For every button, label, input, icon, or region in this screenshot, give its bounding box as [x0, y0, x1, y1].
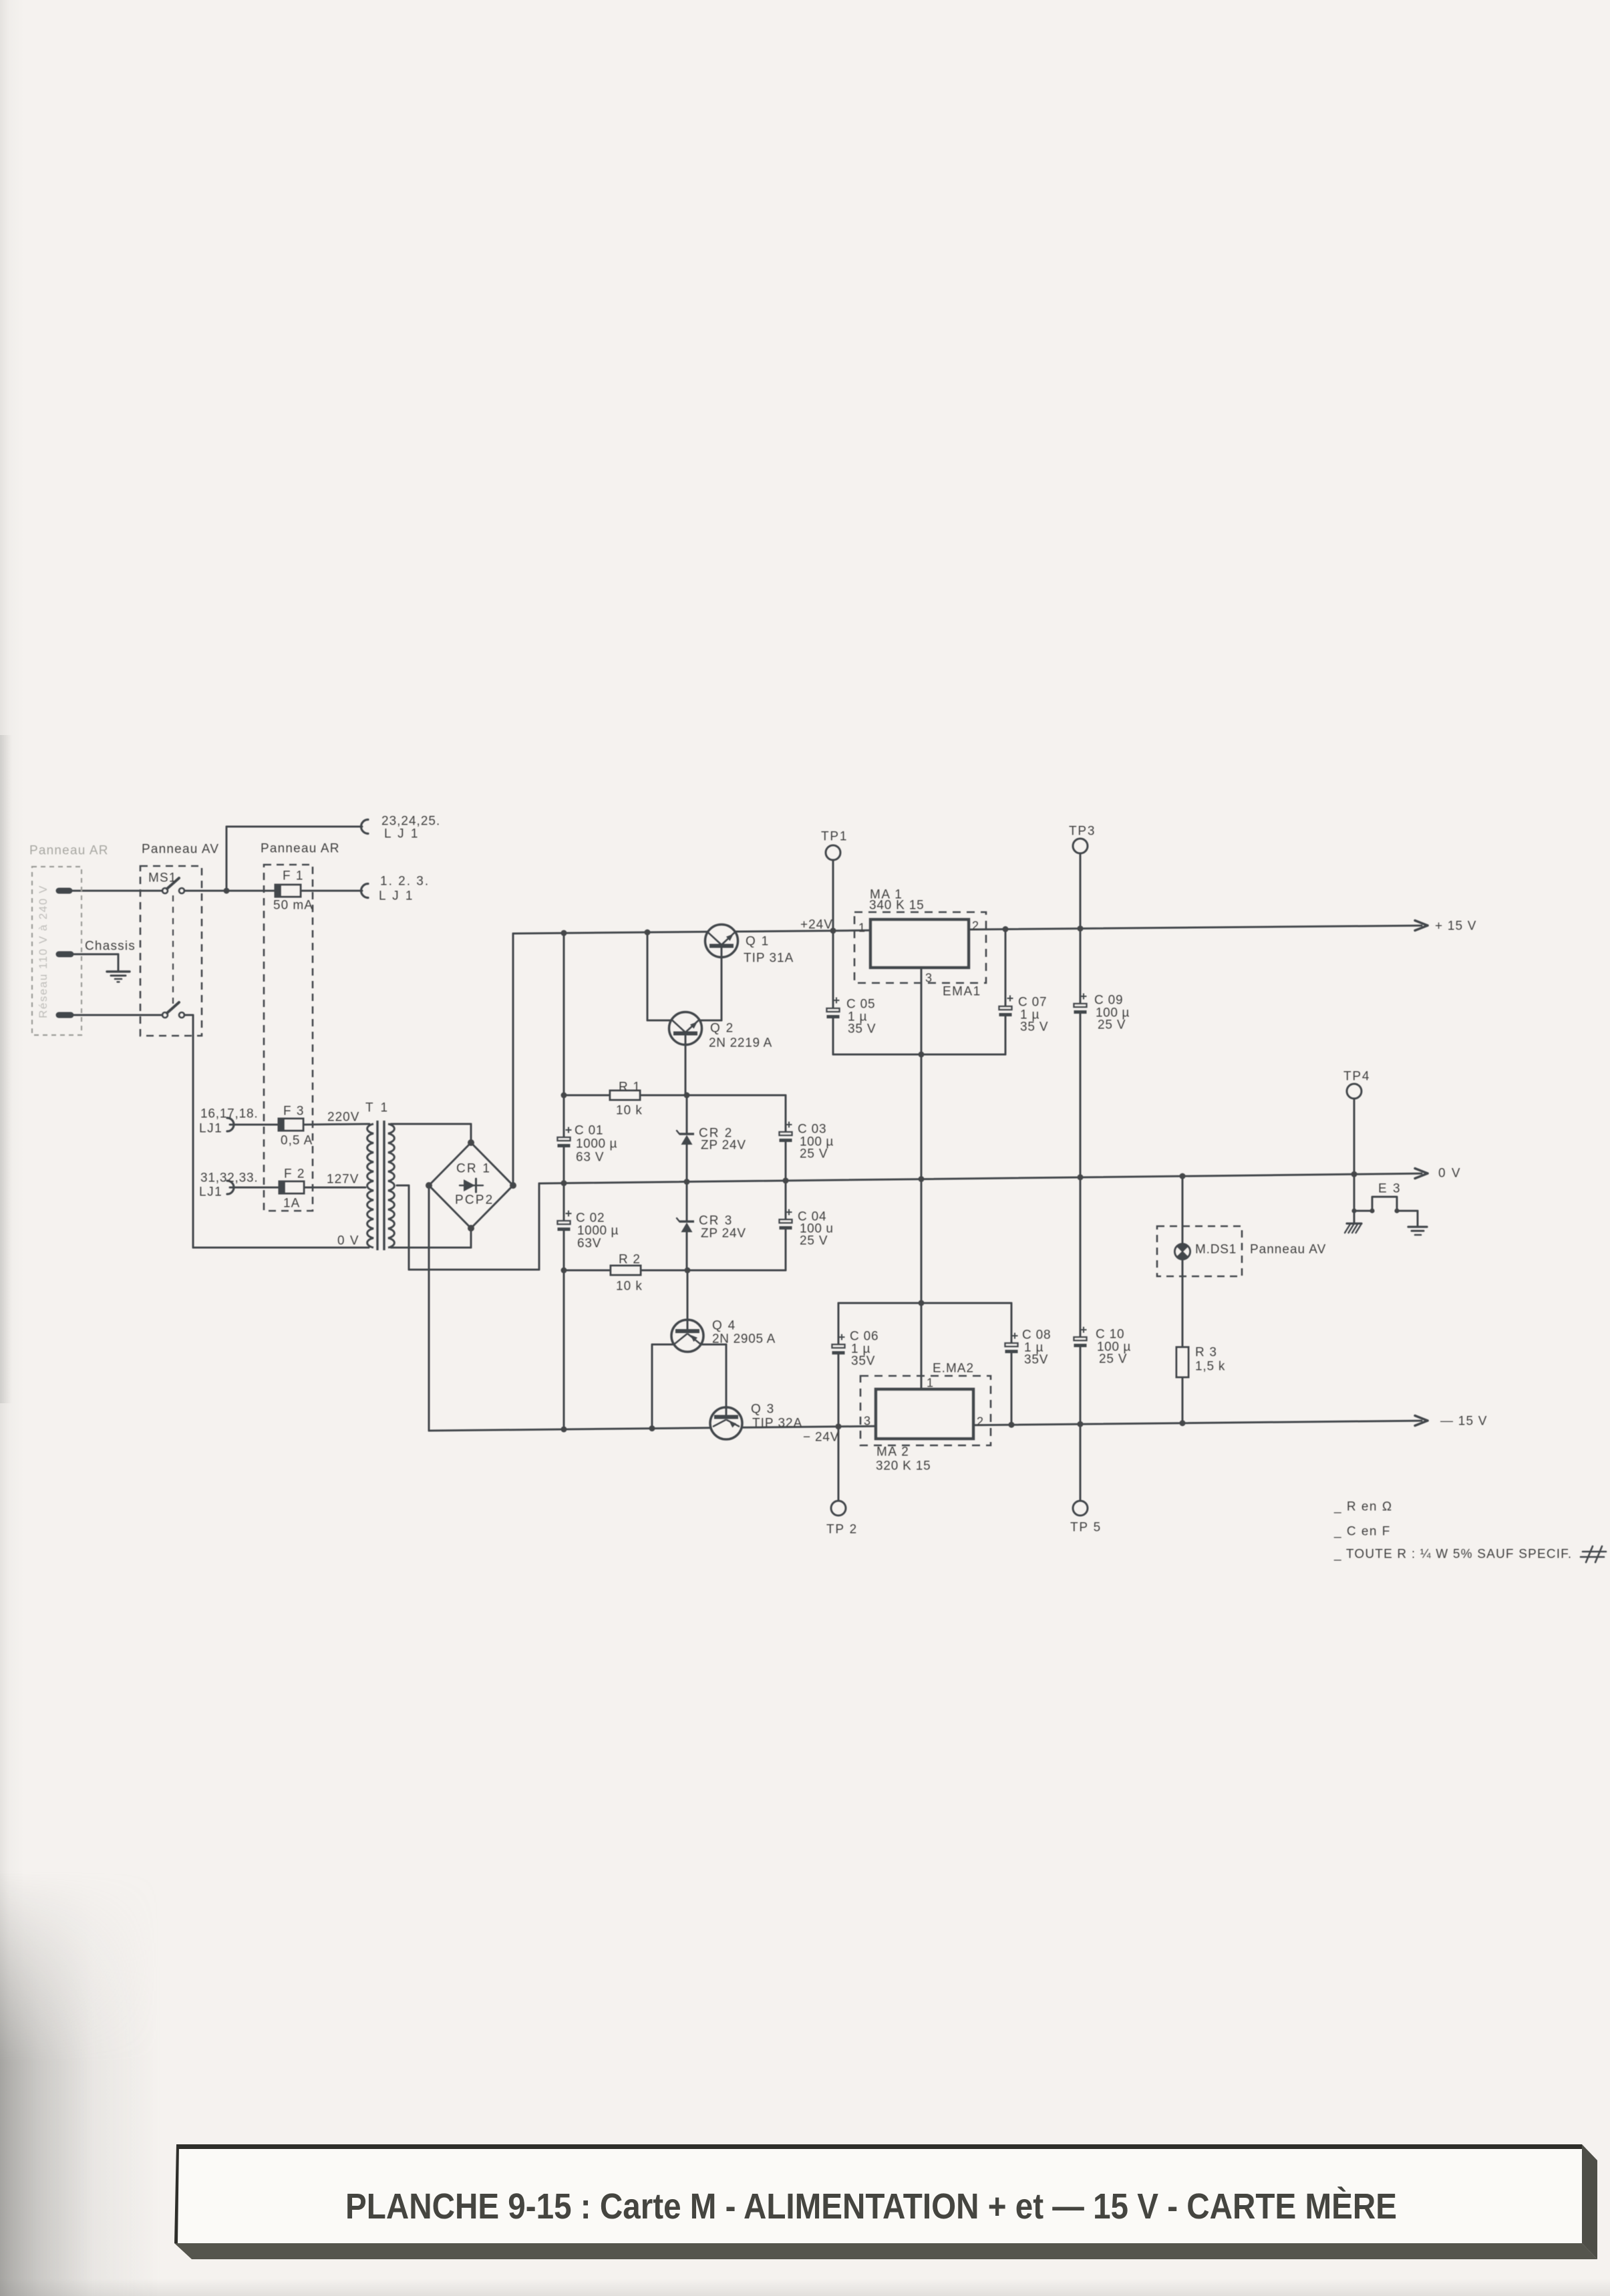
svg-text:T 1: T 1 — [365, 1101, 389, 1115]
svg-text:Panneau AV: Panneau AV — [142, 843, 219, 857]
svg-text:35 V: 35 V — [1020, 1020, 1048, 1034]
svg-text:2: 2 — [977, 1415, 983, 1428]
svg-text:E.MA2: E.MA2 — [933, 1362, 974, 1376]
svg-text:31,32,33.: 31,32,33. — [200, 1171, 258, 1185]
svg-text:_ C en F: _ C en F — [1333, 1525, 1391, 1539]
svg-text:TP3: TP3 — [1069, 825, 1096, 839]
svg-text:50 mA: 50 mA — [273, 899, 313, 913]
svg-text:_ TOUTE R : ¼ W 5% SAUF: _ TOUTE R : ¼ W 5% SAUF SPECIF. — [1333, 1548, 1572, 1562]
svg-text:Chassis: Chassis — [85, 940, 136, 954]
svg-text:0 V: 0 V — [337, 1234, 359, 1248]
svg-text:TP4: TP4 — [1343, 1070, 1370, 1084]
svg-text:Réseau 110 V à 240 V: Réseau 110 V à 240 V — [37, 885, 49, 1018]
svg-text:0,5 A: 0,5 A — [281, 1134, 313, 1148]
svg-text:C 03: C 03 — [798, 1123, 826, 1137]
svg-text:2: 2 — [972, 919, 979, 932]
svg-text:Panneau AV: Panneau AV — [1250, 1243, 1326, 1257]
svg-text:CR 3: CR 3 — [699, 1214, 733, 1228]
svg-text:Q 2: Q 2 — [710, 1022, 734, 1036]
svg-text:Q 4: Q 4 — [712, 1319, 736, 1333]
svg-text:16,17,18.: 16,17,18. — [200, 1107, 258, 1121]
svg-text:L J 1: L J 1 — [384, 827, 420, 841]
svg-text:C 01: C 01 — [575, 1124, 603, 1138]
svg-text:25 V: 25 V — [1098, 1018, 1126, 1032]
svg-text:EMA1: EMA1 — [943, 985, 981, 999]
svg-text:0 V: 0 V — [1438, 1167, 1462, 1181]
svg-text:R 2: R 2 — [619, 1253, 641, 1267]
svg-text:35V: 35V — [851, 1354, 875, 1369]
svg-text:1000 µ: 1000 µ — [577, 1224, 619, 1238]
svg-text:ZP 24V: ZP 24V — [701, 1139, 746, 1153]
svg-text:E 3: E 3 — [1378, 1182, 1402, 1196]
svg-text:F 1: F 1 — [283, 869, 304, 883]
svg-text:L J 1: L J 1 — [379, 889, 414, 903]
svg-text:C 08: C 08 — [1022, 1328, 1051, 1342]
svg-text:2N 2219 A: 2N 2219 A — [709, 1036, 772, 1050]
svg-text:+ 15 V: + 15 V — [1435, 919, 1477, 934]
svg-text:LJ1: LJ1 — [199, 1185, 222, 1199]
svg-text:CR 1: CR 1 — [456, 1162, 491, 1176]
svg-text:_ R en Ω: _ R en Ω — [1333, 1500, 1393, 1514]
svg-text:+24V: +24V — [800, 918, 833, 932]
svg-text:PLANCHE 9-15 : Carte M - ALIME: PLANCHE 9-15 : Carte M - ALIMENTATION + … — [345, 2186, 1397, 2227]
svg-text:Panneau AR: Panneau AR — [261, 842, 340, 856]
svg-text:10 k: 10 k — [616, 1280, 643, 1294]
svg-text:127V: 127V — [327, 1173, 359, 1187]
svg-text:TP 5: TP 5 — [1070, 1521, 1102, 1535]
svg-text:1. 2. 3.: 1. 2. 3. — [380, 875, 430, 889]
svg-text:1000 µ: 1000 µ — [576, 1137, 617, 1151]
svg-text:25 V: 25 V — [800, 1147, 828, 1161]
svg-text:1: 1 — [927, 1376, 933, 1389]
svg-text:C 02: C 02 — [576, 1211, 605, 1226]
svg-text:1A: 1A — [283, 1197, 300, 1211]
svg-text:220V: 220V — [327, 1111, 359, 1125]
svg-text:PCP2: PCP2 — [455, 1193, 494, 1207]
svg-text:C 09: C 09 — [1094, 994, 1123, 1008]
svg-text:TIP 32A: TIP 32A — [752, 1417, 802, 1431]
svg-text:C 05: C 05 — [846, 998, 875, 1012]
svg-text:3: 3 — [925, 971, 932, 984]
svg-text:25 V: 25 V — [800, 1234, 828, 1248]
svg-text:Panneau AR: Panneau AR — [29, 844, 109, 858]
svg-text:320 K 15: 320 K 15 — [876, 1459, 931, 1473]
svg-text:10 k: 10 k — [616, 1104, 643, 1118]
svg-text:340 K 15: 340 K 15 — [869, 899, 924, 913]
svg-text:TIP 31A: TIP 31A — [744, 952, 794, 966]
svg-text:C 06: C 06 — [850, 1330, 878, 1344]
svg-text:3: 3 — [864, 1414, 870, 1427]
svg-text:63V: 63V — [577, 1237, 601, 1251]
svg-text:TP1: TP1 — [821, 830, 848, 844]
svg-text:1,5 k: 1,5 k — [1195, 1360, 1225, 1374]
svg-text:MA 2: MA 2 — [876, 1445, 909, 1459]
svg-text:LJ1: LJ1 — [199, 1122, 222, 1136]
svg-text:R 1: R 1 — [619, 1081, 641, 1095]
svg-text:ZP 24V: ZP 24V — [701, 1227, 746, 1241]
svg-text:23,24,25.: 23,24,25. — [381, 815, 440, 829]
svg-text:25 V: 25 V — [1099, 1352, 1127, 1367]
svg-text:TP 2: TP 2 — [826, 1523, 858, 1537]
svg-text:MS1: MS1 — [148, 871, 177, 885]
svg-text:F 2: F 2 — [284, 1167, 305, 1181]
svg-text:F 3: F 3 — [283, 1105, 305, 1119]
svg-text:35 V: 35 V — [848, 1022, 876, 1036]
svg-text:— 15 V: — 15 V — [1440, 1415, 1488, 1429]
svg-text:R 3: R 3 — [1195, 1346, 1217, 1360]
svg-text:2N 2905 A: 2N 2905 A — [712, 1332, 776, 1346]
svg-text:35V: 35V — [1024, 1353, 1048, 1367]
svg-text:− 24V: − 24V — [803, 1431, 839, 1445]
svg-text:63 V: 63 V — [576, 1151, 604, 1165]
svg-text:Q 1: Q 1 — [746, 935, 770, 949]
svg-text:Q 3: Q 3 — [751, 1403, 775, 1417]
svg-text:M.DS1: M.DS1 — [1195, 1243, 1237, 1257]
svg-text:C 10: C 10 — [1096, 1328, 1124, 1342]
svg-text:C 07: C 07 — [1018, 996, 1047, 1010]
svg-text:1: 1 — [858, 921, 865, 934]
